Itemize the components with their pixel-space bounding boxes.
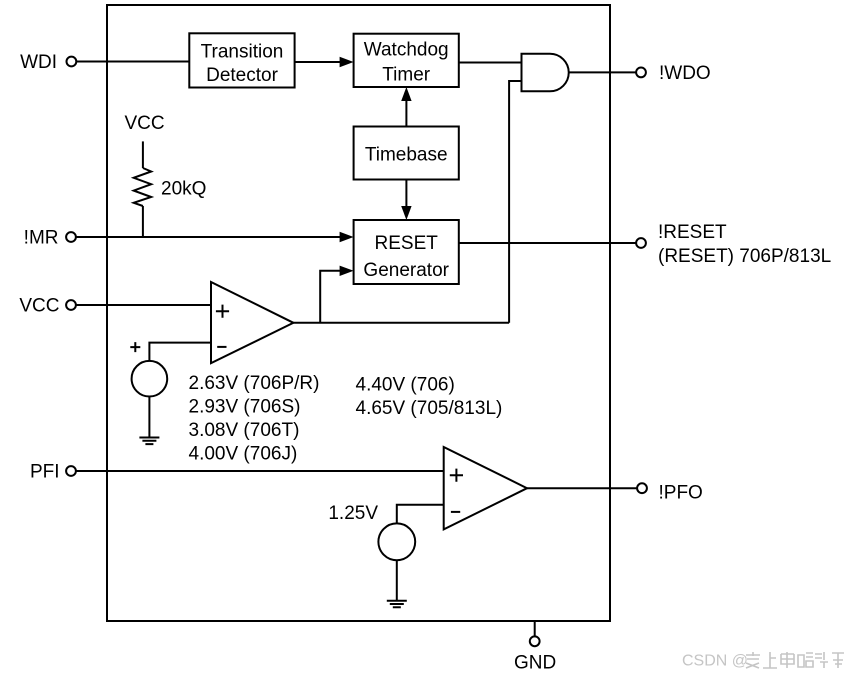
- svg-text:!RESET: !RESET: [658, 222, 727, 243]
- wire branch to RESET Generator: [320, 271, 341, 323]
- IC boundary box: [107, 5, 610, 621]
- wire comparator output to PFO: [527, 487, 637, 489]
- svg-text:Generator: Generator: [363, 260, 449, 281]
- comparator U2: [211, 282, 293, 363]
- terminal VCC: [66, 300, 76, 310]
- wire comparator output: [293, 322, 509, 324]
- watermark CJK glyphs: [746, 652, 844, 668]
- svg-text:(RESET) 706P/813L: (RESET) 706P/813L: [658, 246, 831, 267]
- svg-text:!PFO: !PFO: [659, 483, 703, 504]
- block Watchdog Timer: [354, 34, 459, 87]
- svg-text:CSDN @: CSDN @: [682, 653, 748, 670]
- wire Transition Detector to Watchdog Timer: [295, 61, 341, 63]
- wire AND gate output to WDO terminal: [569, 71, 637, 73]
- arrowhead down into RESET Generator: [401, 206, 411, 220]
- wire comparator feedback to AND gate lower input: [509, 81, 521, 323]
- minus input marker U3: [451, 511, 460, 513]
- svg-text:4.00V (706J): 4.00V (706J): [189, 444, 298, 465]
- wire MR input: [76, 236, 341, 238]
- svg-text:GND: GND: [514, 653, 556, 674]
- wire GND stub: [534, 621, 536, 637]
- threshold values column 1: [189, 373, 320, 464]
- voltage reference V2: [378, 523, 415, 560]
- svg-text:Watchdog: Watchdog: [364, 40, 449, 61]
- terminal MR: [66, 232, 76, 242]
- plus input marker U2: [216, 305, 229, 318]
- svg-text:WDI: WDI: [20, 52, 57, 73]
- wire Watchdog Timer to AND gate: [459, 62, 522, 64]
- threshold values column 2: [356, 374, 503, 419]
- svg-text:VCC: VCC: [124, 113, 164, 134]
- comparator U3: [444, 447, 527, 529]
- plus input marker U3: [450, 469, 463, 482]
- ground GND1: [139, 438, 159, 445]
- svg-text:VCC: VCC: [19, 295, 59, 316]
- wire resistor to MR line: [142, 206, 144, 237]
- wire WDI input: [76, 61, 189, 63]
- wire Timebase down to RESET Generator: [405, 180, 407, 209]
- watermark CSDN: [682, 653, 748, 670]
- svg-text:RESET: RESET: [375, 233, 439, 254]
- arrowhead up into Watchdog Timer: [401, 87, 411, 101]
- svg-text:Detector: Detector: [206, 65, 278, 86]
- terminal PFI: [66, 466, 76, 476]
- terminal PFO: [637, 483, 647, 493]
- svg-text:!WDO: !WDO: [659, 63, 711, 84]
- svg-text:Transition: Transition: [201, 42, 284, 63]
- svg-text:3.08V (706T): 3.08V (706T): [189, 420, 300, 441]
- terminal GND: [530, 636, 540, 646]
- minus input marker U2: [217, 346, 226, 348]
- wire RESET output: [459, 242, 637, 244]
- plus polarity label vref1: [130, 342, 140, 352]
- svg-text:2.63V (706P/R): 2.63V (706P/R): [189, 373, 320, 394]
- arrowhead MR into RESET Generator: [340, 232, 354, 242]
- svg-text:2.93V (706S): 2.93V (706S): [189, 397, 301, 418]
- ground GND2: [387, 601, 407, 608]
- terminal WDO: [636, 68, 646, 78]
- terminal RESET: [636, 238, 646, 248]
- arrowhead into Watchdog Timer: [340, 57, 354, 67]
- svg-text:!MR: !MR: [24, 227, 59, 248]
- svg-text:4.65V (705/813L): 4.65V (705/813L): [356, 398, 503, 419]
- wire Timebase up to Watchdog Timer: [405, 99, 407, 127]
- svg-text:4.40V (706): 4.40V (706): [356, 374, 455, 395]
- svg-text:1.25V: 1.25V: [328, 503, 378, 524]
- svg-text:Timer: Timer: [382, 64, 431, 85]
- block Transition Detector: [189, 33, 294, 87]
- block Timebase: [354, 127, 459, 180]
- svg-text:PFI: PFI: [30, 461, 60, 482]
- svg-text:20kQ: 20kQ: [161, 178, 206, 199]
- voltage reference V1: [132, 361, 168, 397]
- resistor R1 20kQ: [134, 168, 152, 206]
- arrowhead branch into RESET Generator: [340, 266, 354, 276]
- terminal WDI: [67, 57, 77, 67]
- wire PFI input to comparator: [76, 470, 444, 472]
- wire vref1 to ground: [148, 397, 150, 438]
- AND gate U1: [522, 54, 569, 92]
- wire VCC input to comparator: [76, 304, 211, 306]
- wire vref1 to comparator minus: [149, 343, 211, 361]
- block RESET Generator: [354, 220, 459, 284]
- wire vref2 to comparator minus: [397, 505, 444, 524]
- svg-text:Timebase: Timebase: [365, 144, 448, 165]
- wire VCC to resistor: [142, 141, 144, 168]
- wire vref2 to ground: [396, 560, 398, 601]
